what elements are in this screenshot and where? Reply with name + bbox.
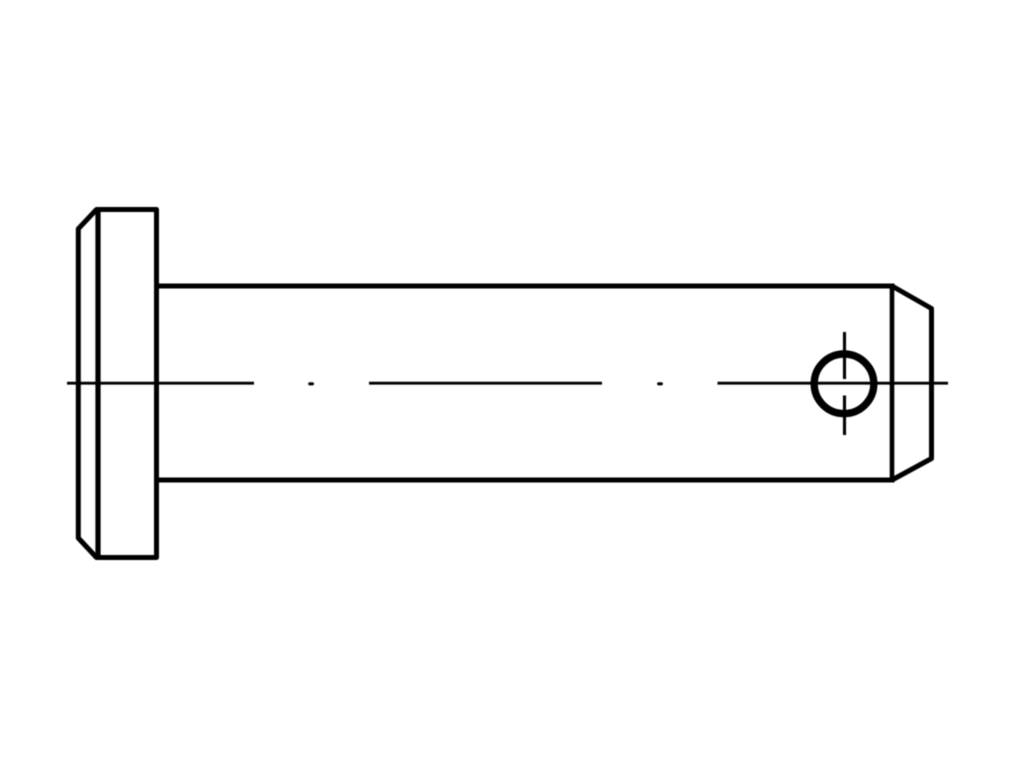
centerline dot 1 [310,382,313,385]
hole vertical centerline lower segment [843,396,846,436]
shank bottom line [157,478,893,483]
hole vertical centerline upper segment [843,332,846,379]
shank top line [157,284,893,289]
pin head chamfer edge line [95,208,100,559]
centerline dash 1 (horizontal axis, left) [67,382,254,385]
cotter pin hole [814,354,874,414]
pin tip chamfer edge line (end face) [890,286,895,480]
centerline dash 3 (horizontal axis, right, through hole) [718,382,949,385]
pin head outline (chamfered flat head) [78,210,156,558]
centerline dot 2 [659,382,662,385]
centerline dash 2 (horizontal axis, middle) [369,382,602,385]
pin tip chamfered end outline [892,286,932,480]
